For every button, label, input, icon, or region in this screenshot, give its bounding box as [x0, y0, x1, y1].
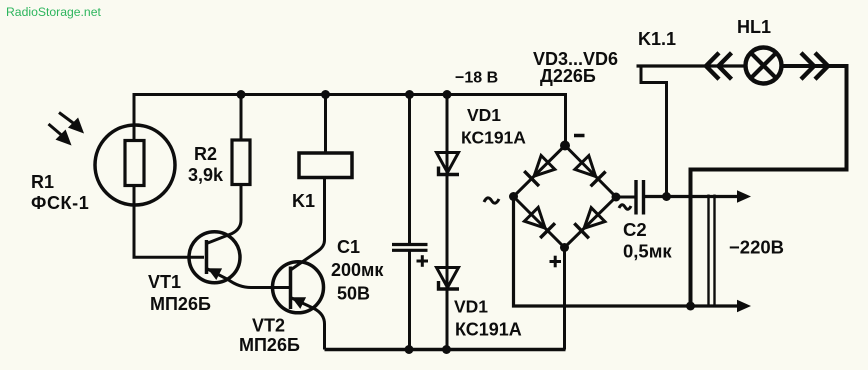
svg-text:−18 В: −18 В: [455, 70, 498, 87]
minus label at bridge top: [574, 134, 585, 138]
node dot C1/bottom rail: [405, 345, 414, 354]
svg-text:R1: R1: [31, 172, 54, 192]
svg-text:HL1: HL1: [737, 17, 771, 37]
svg-text:RadioStorage.net: RadioStorage.net: [6, 5, 101, 19]
bridge rectifier VD3-VD6 diamond: [514, 146, 617, 248]
transistor VT2: [273, 178, 325, 350]
node dot zener/bottom rail: [442, 345, 451, 354]
mains upper arrow: [737, 190, 751, 202]
node dot R2/top rail: [237, 90, 246, 99]
photoresistor R1 body: [125, 141, 144, 186]
svg-text:VT2: VT2: [252, 316, 285, 336]
svg-text:КС191А: КС191А: [455, 320, 522, 340]
capacitor C2 plates: [634, 180, 637, 215]
node dot bridge left: [509, 192, 518, 201]
wire R1 bottom to VT1 base: [134, 186, 204, 258]
contact K1.1 lever wire: [637, 64, 746, 67]
mains lower arrow: [737, 300, 751, 312]
svg-text:R2: R2: [194, 144, 217, 164]
wire bridge right node to C2: [616, 196, 635, 199]
tilde at bridge right: [619, 205, 631, 210]
svg-text:50В: 50В: [337, 284, 370, 304]
mains socket bars: [707, 195, 709, 308]
svg-text:ФСК-1: ФСК-1: [31, 193, 89, 213]
svg-text:3,9k: 3,9k: [188, 165, 224, 185]
contact K1.1 fixed terminal wire: [641, 67, 667, 197]
capacitor C1 plates: [392, 243, 428, 246]
node dot K1/top rail: [321, 90, 330, 99]
wire zener branch: [446, 95, 449, 350]
connector chevrons right of lamp: [801, 53, 828, 79]
plus label at bridge bottom: [550, 256, 562, 268]
connector chevrons left of lamp: [706, 53, 732, 79]
wire lamp to mains return loop: [691, 66, 847, 306]
tilde at bridge left: [484, 198, 499, 203]
svg-text:200мк: 200мк: [331, 260, 384, 280]
light arrow 2: [49, 124, 70, 143]
svg-text:VD1: VD1: [454, 297, 488, 317]
photoresistor R1 circle: [95, 125, 175, 205]
resistor R2: [232, 140, 250, 185]
diode VD5 (bottom-left arm): [524, 207, 555, 238]
svg-text:C1: C1: [337, 237, 360, 257]
node dot bridge minus: [560, 141, 570, 151]
diode VD4 (top-right arm): [575, 156, 606, 187]
svg-text:Д226Б: Д226Б: [540, 66, 596, 86]
wire bridge plus to bottom rail: [563, 248, 566, 350]
svg-text:КС191А: КС191А: [461, 128, 526, 148]
node dot zener/top rail: [443, 90, 452, 99]
node dot bridge right: [612, 193, 621, 202]
transistor VT1: [189, 185, 290, 288]
wire bottom rail: [325, 348, 566, 352]
wire R2 top lead: [240, 95, 243, 141]
relay coil K1: [299, 153, 352, 178]
diode VD6 (bottom-right arm): [574, 208, 605, 239]
node dot C1/top rail: [405, 90, 414, 99]
C1 plus sign: [417, 255, 429, 267]
zener diode VD1 (upper): [437, 153, 460, 175]
wire K1 top lead: [324, 95, 327, 154]
capacitor C1 leads: [408, 95, 411, 244]
svg-text:K1: K1: [292, 191, 315, 211]
svg-text:K1.1: K1.1: [638, 29, 676, 49]
wire C2 to mains upper line: [645, 195, 737, 198]
svg-text:0,5мк: 0,5мк: [623, 241, 672, 262]
node dot C2/K1.1 junction: [662, 192, 671, 201]
lamp HL1: [746, 48, 782, 84]
svg-text:VD1: VD1: [467, 105, 501, 125]
wire bridge left node to mains lower line: [514, 197, 738, 307]
svg-text:МП26Б: МП26Б: [150, 294, 211, 314]
svg-text:C2: C2: [623, 219, 647, 240]
wire top supply rail from R1 top to bridge minus corner: [134, 95, 566, 144]
svg-text:VT1: VT1: [148, 272, 181, 292]
diode VD3 (top-left arm): [524, 156, 555, 187]
light arrow 1: [59, 113, 82, 132]
zener diode VD1 (lower): [437, 268, 460, 290]
node dot lamp return/mains lower: [686, 302, 695, 311]
svg-text:−220В: −220В: [729, 237, 784, 258]
svg-text:МП26Б: МП26Б: [239, 335, 300, 355]
node dot bridge plus: [560, 243, 569, 252]
